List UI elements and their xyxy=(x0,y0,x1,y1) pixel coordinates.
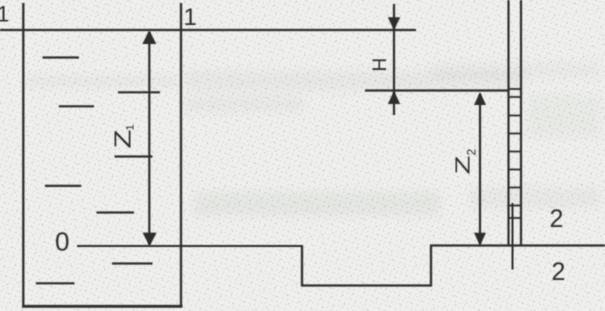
tube rung 7 xyxy=(508,187,523,189)
tank bottom xyxy=(22,305,183,308)
water dash 2 xyxy=(118,91,160,93)
tube rung 9 xyxy=(508,217,523,219)
tube rung 4 xyxy=(508,133,523,135)
section line 2-2 xyxy=(512,203,514,270)
water dash 4 xyxy=(115,155,153,157)
channel depression profile xyxy=(302,245,431,286)
tube rung 1 xyxy=(508,88,523,90)
water dash 1 xyxy=(43,56,79,58)
water dash 7 xyxy=(112,262,153,264)
arrowhead Z1 bottom xyxy=(143,233,157,247)
dimension Z1 shaft xyxy=(148,32,150,245)
tube rung 6 xyxy=(508,169,523,171)
svg-text:2: 2 xyxy=(550,205,564,233)
piezometer tube left wall xyxy=(507,0,509,246)
dimension H shaft xyxy=(393,4,395,115)
svg-text:Z: Z xyxy=(109,130,135,149)
svg-text:H: H xyxy=(370,58,391,72)
dimension Z2 shaft xyxy=(479,94,481,244)
arrowhead Z2 top xyxy=(474,92,486,105)
piezometer tube right wall xyxy=(520,0,522,246)
tube rung 8 xyxy=(508,205,523,207)
tank left wall xyxy=(22,3,24,307)
water dash 3 xyxy=(59,105,94,107)
water surface line 1-1 xyxy=(0,29,416,31)
tank right wall xyxy=(180,3,182,307)
arrowhead Z1 top xyxy=(142,30,156,44)
svg-text:1: 1 xyxy=(184,4,197,31)
water dash 6 xyxy=(97,211,135,213)
datum line 0 left xyxy=(77,245,302,247)
svg-text:0: 0 xyxy=(55,227,69,257)
svg-text:1: 1 xyxy=(0,2,9,27)
arrowhead Z2 bottom xyxy=(474,233,486,246)
piezometric head line xyxy=(365,89,509,91)
svg-text:1: 1 xyxy=(125,124,137,130)
ghost bleed-through text patches xyxy=(26,62,600,215)
water dash 5 xyxy=(45,185,81,187)
svg-text:Z: Z xyxy=(451,155,474,174)
datum line right xyxy=(430,244,605,246)
tube rung 3 xyxy=(508,115,523,117)
svg-text:2: 2 xyxy=(552,258,566,286)
tube rung 2 xyxy=(508,96,523,98)
svg-text:2: 2 xyxy=(465,149,479,156)
arrowhead H upper (points down) xyxy=(388,17,400,30)
water dash 8 xyxy=(36,282,75,284)
arrowhead H lower (points up) xyxy=(388,91,400,104)
tube rung 5 xyxy=(508,151,523,153)
